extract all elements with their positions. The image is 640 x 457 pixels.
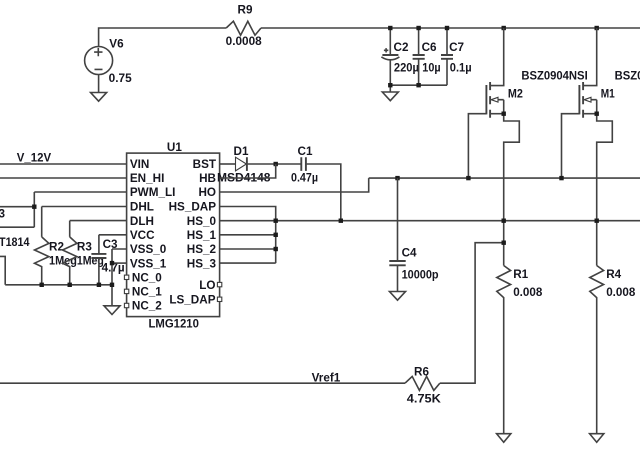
svg-text:BST: BST [193,158,217,171]
wire pwm-dhl vertical [33,192,35,227]
node V_12V [0,152,127,165]
pin HO [198,186,216,199]
wire ground rail left [5,284,112,286]
transistor M1 [562,28,640,266]
pin NC_0 [124,272,162,285]
pin DLH [130,215,154,228]
svg-text:R1: R1 [513,268,528,281]
ground under R1 [497,434,511,443]
svg-text:R4: R4 [606,268,621,281]
pin NC_2 [124,300,162,313]
svg-text:HS_DAP: HS_DAP [169,201,217,214]
svg-text:LMG1210: LMG1210 [149,317,200,330]
junction dots cap bottom rail [388,83,421,87]
resistor R1 [497,266,543,434]
svg-text:C1: C1 [298,145,313,158]
wire top rail right [261,27,640,29]
svg-text:NC_1: NC_1 [132,286,162,299]
junction dot R6-R1 [502,241,506,245]
pin DHL [130,201,154,214]
ground under V6 [91,93,107,102]
pin NC_1 [124,286,162,299]
svg-text:0.1µ: 0.1µ [450,62,472,75]
svg-text:1Meg: 1Meg [49,255,77,268]
node T1814 stub [0,236,30,285]
svg-text:VSS_1: VSS_1 [130,257,167,270]
svg-text:VSS_0: VSS_0 [130,243,167,256]
svg-text:R3: R3 [77,241,92,254]
svg-text:HB: HB [199,172,216,185]
svg-text:PWM_LI: PWM_LI [130,186,175,199]
svg-text:M2: M2 [508,88,523,101]
pin VSS_1 [130,257,167,270]
wire HS_DAP [220,207,276,264]
svg-text:LO: LO [199,279,215,292]
pin PWM_LI [130,186,175,199]
svg-text:V_12V: V_12V [17,152,51,165]
pin HS_0 [187,215,217,228]
capacitor C2 [381,28,419,85]
svg-text:EN_HI: EN_HI [130,172,164,185]
svg-text:4.75K: 4.75K [407,393,442,406]
pin EN_HI [130,172,164,185]
svg-text:D1: D1 [234,145,249,158]
svg-text:R9: R9 [238,3,253,16]
transistor M2 [468,28,587,266]
junction dot BST-HB [274,162,278,166]
node Vref1 wire [0,371,405,384]
svg-text:0.47µ: 0.47µ [291,172,318,185]
voltage source V6 [85,38,133,93]
svg-text:0.008: 0.008 [513,286,543,299]
ground under C2 [382,85,398,101]
capacitor C3 [91,238,124,285]
svg-text:C4: C4 [402,247,417,260]
wire HS_0 rail [220,220,640,222]
pin VSS_0 [130,243,167,256]
wire D1 cathode to C1 [248,163,301,165]
junction dots top rail [388,26,599,30]
wire top rail left [99,28,227,47]
pin HS_2 [187,243,217,256]
svg-text:BSZ0904NSI: BSZ0904NSI [521,70,587,83]
capacitor C6 [413,28,441,85]
wire DLH [70,221,127,237]
svg-text:VIN: VIN [130,158,149,171]
svg-text:HS_1: HS_1 [187,229,217,242]
wire PWM_LI [34,191,126,193]
wire DHL [42,207,127,237]
wire HS_2 [220,248,276,250]
svg-text:C7: C7 [449,41,464,54]
resistor R9 [226,3,263,48]
resistor R3 [63,237,104,285]
svg-text:NC_2: NC_2 [132,300,162,313]
resistor R6 [405,365,441,405]
junction dots VSS [40,261,115,287]
wire left stub lower [0,226,34,228]
junction dots HS rail [339,219,599,223]
svg-text:R2: R2 [49,241,64,254]
wire HO rail [369,177,640,179]
svg-text:HO: HO [198,186,216,199]
pin BST [193,158,217,171]
svg-text:V6: V6 [109,38,124,51]
pin HS_DAP [169,201,217,214]
wire HS_1 [220,234,276,236]
svg-text:3: 3 [0,208,6,221]
pin LO [199,279,222,292]
svg-text:LS_DAP: LS_DAP [169,294,215,307]
pin VCC [130,229,155,242]
svg-text:BSZ0904NSI: BSZ0904NSI [615,70,640,83]
svg-text:T1814: T1814 [0,236,30,249]
svg-text:M1: M1 [601,88,615,101]
svg-text:DLH: DLH [130,215,154,228]
svg-text:1Meg: 1Meg [77,255,104,268]
ground under C4 [390,292,406,301]
junction dots HO rail [395,176,563,180]
wire VSS_0 [112,249,127,306]
svg-text:10000p: 10000p [402,269,439,282]
svg-text:HS_2: HS_2 [187,243,217,256]
svg-text:0.008: 0.008 [606,286,636,299]
svg-text:DHL: DHL [130,201,154,214]
capacitor C1 [291,145,341,221]
svg-text:R6: R6 [414,365,429,378]
pin HB [199,172,216,185]
op-amp U1 box LMG1210 [127,141,220,330]
wire HS_3 [220,262,276,264]
svg-text:C6: C6 [422,41,437,54]
wire HB [220,164,276,178]
wire VCC [99,235,127,254]
svg-text:10µ: 10µ [422,62,441,75]
pin HS_3 [187,257,217,270]
resistor R4 [590,266,636,434]
capacitor C4 [389,178,438,291]
capacitor C7 [441,28,472,85]
svg-text:0.0008: 0.0008 [226,35,263,48]
junction dots HS vertical [274,219,278,252]
wire VSS_1 [112,262,127,264]
svg-text:U1: U1 [167,141,182,154]
svg-text:C2: C2 [394,41,409,54]
svg-text:0.75: 0.75 [109,72,133,85]
wire R6 to R1 [440,243,504,384]
diode D1 [217,145,271,185]
wire cap bottom rail [390,84,447,86]
svg-text:HS_3: HS_3 [187,257,217,270]
junction dot node3 [32,205,36,209]
svg-text:HS_0: HS_0 [187,215,217,228]
wire HO [220,178,369,192]
pin VIN [130,158,149,171]
svg-text:220µ: 220µ [394,62,419,75]
svg-text:Vref1: Vref1 [312,371,341,384]
node 3 left stub [0,207,34,221]
ground under R4 [590,434,604,443]
ground left VSS [104,306,120,315]
svg-text:VCC: VCC [130,229,155,242]
resistor R2 [35,237,77,285]
wire BST [220,163,236,165]
wire EN_HI [0,177,127,179]
pin HS_1 [187,229,217,242]
pin LS_DAP [169,294,221,307]
svg-text:NC_0: NC_0 [132,272,162,285]
